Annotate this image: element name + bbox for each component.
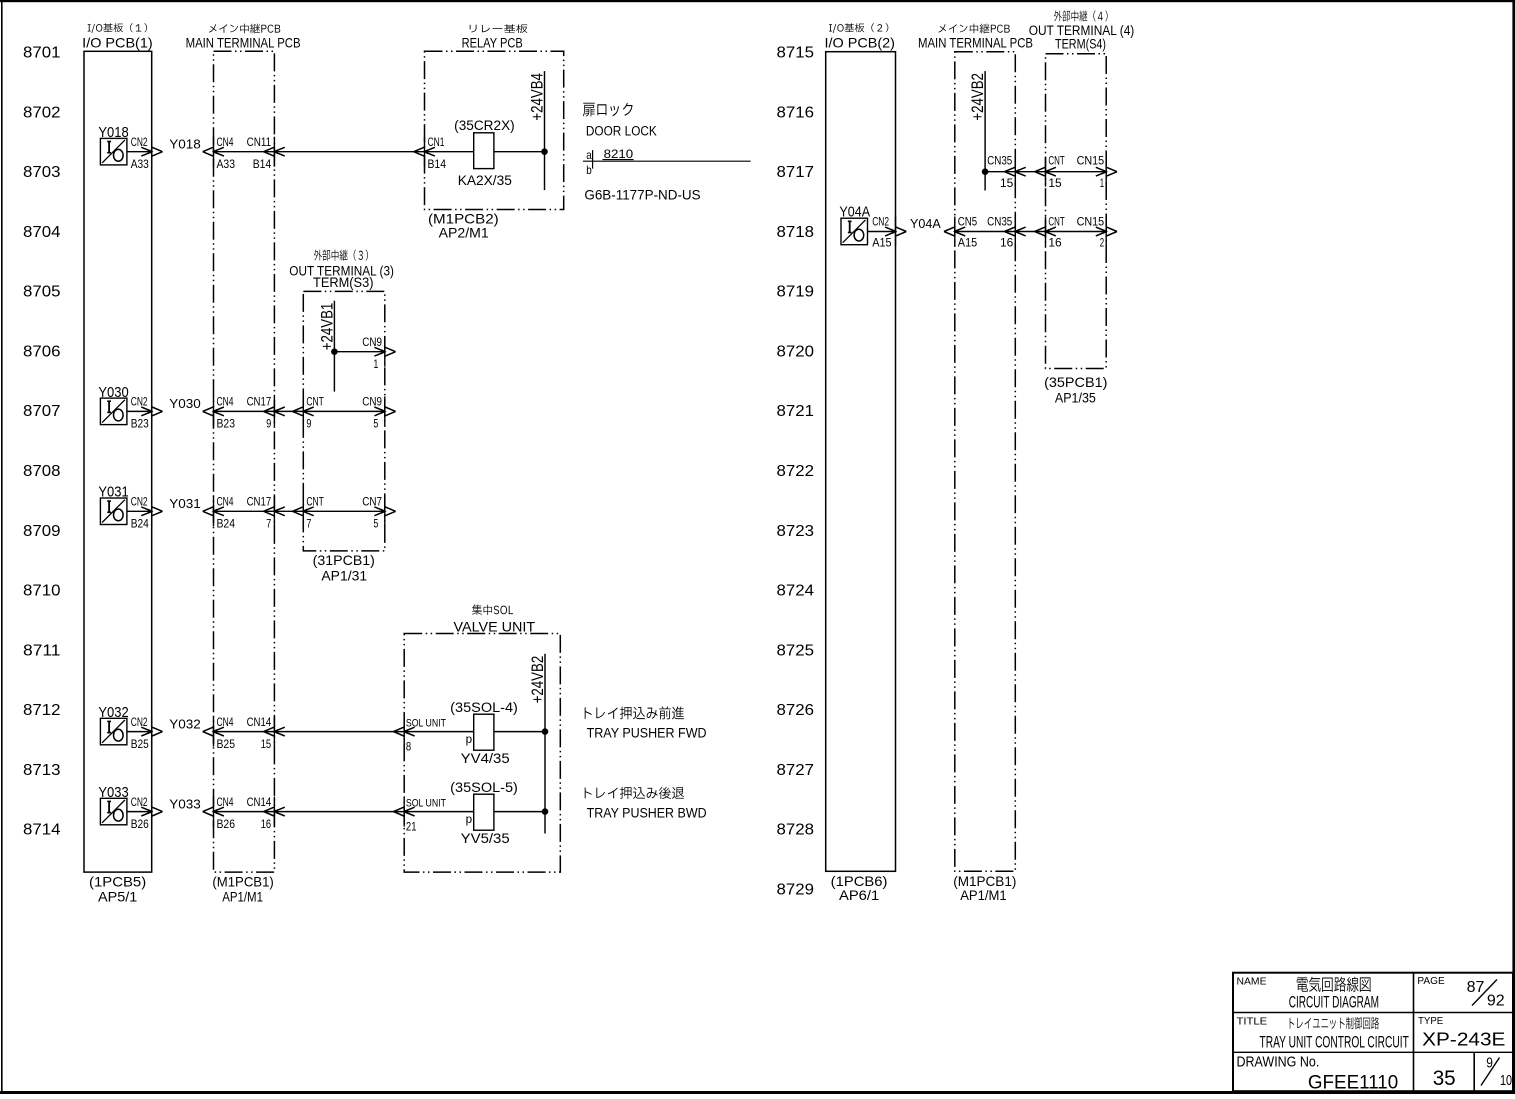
- svg-text:CN2: CN2: [131, 495, 148, 509]
- svg-text:8710: 8710: [23, 583, 61, 600]
- svg-text:TYPE: TYPE: [1418, 1015, 1443, 1027]
- svg-text:(1PCB5): (1PCB5): [89, 874, 146, 890]
- svg-text:8724: 8724: [777, 583, 815, 600]
- power rail +24VB4: [544, 71, 546, 190]
- svg-text:92: 92: [1487, 992, 1505, 1009]
- door lock device label: [583, 103, 657, 139]
- svg-text:AP5/1: AP5/1: [98, 889, 138, 905]
- wire Y030 to I/O PCB(1) edge: [127, 410, 152, 412]
- junction: [542, 728, 549, 735]
- svg-text:PAGE: PAGE: [1417, 975, 1444, 987]
- svg-text:CN2: CN2: [872, 215, 889, 229]
- svg-text:8706: 8706: [23, 344, 61, 361]
- svg-text:5: 5: [373, 517, 378, 531]
- svg-text:VALVE UNIT: VALVE UNIT: [454, 620, 536, 635]
- svg-text:B26: B26: [217, 817, 236, 831]
- svg-text:16: 16: [261, 817, 272, 831]
- connector CN2 pin B25 labels: [131, 715, 149, 751]
- wire number 8210: [603, 147, 634, 161]
- wire CNT to CN15: [1046, 231, 1107, 233]
- svg-text:Y032: Y032: [169, 717, 201, 731]
- svg-text:YV4/35: YV4/35: [461, 750, 510, 766]
- svg-text:7: 7: [306, 517, 311, 531]
- svg-text:2: 2: [1100, 236, 1105, 250]
- svg-text:B25: B25: [131, 737, 149, 751]
- svg-text:CN4: CN4: [217, 795, 234, 809]
- svg-text:Y030: Y030: [169, 397, 201, 411]
- svg-text:8718: 8718: [777, 224, 815, 241]
- solenoid YV5/35 (35SOL-5): [450, 780, 518, 846]
- svg-text:7: 7: [266, 517, 271, 531]
- svg-text:Y04A: Y04A: [910, 217, 941, 231]
- connector crossing CN9 pin 1: [362, 335, 395, 371]
- PCB box OUT TERMINAL (4) TERM(S4): [1029, 10, 1135, 405]
- svg-text:b: b: [586, 163, 592, 177]
- connector crossing at I/O PCB(1) edge: [151, 137, 153, 167]
- svg-text:AP1/M1: AP1/M1: [222, 889, 263, 905]
- svg-text:MAIN TERMINAL PCB: MAIN TERMINAL PCB: [918, 35, 1033, 51]
- title block NAME cell: [1237, 976, 1380, 1012]
- PCB box OUT TERMINAL (3) TERM(S3): [289, 250, 394, 584]
- svg-text:B25: B25: [217, 737, 236, 751]
- connector crossing CN4 pin B23: [203, 395, 236, 431]
- svg-text:1: 1: [1100, 176, 1105, 190]
- svg-text:8729: 8729: [777, 881, 815, 898]
- solenoid YV4/35 (35SOL-4): [450, 700, 518, 766]
- wire solenoid to +24VB2 rail: [494, 731, 545, 733]
- svg-text:8723: 8723: [777, 523, 815, 540]
- wire SOL UNIT to solenoid YV5/35: [404, 811, 474, 813]
- svg-text:8721: 8721: [777, 403, 815, 420]
- junction: [542, 808, 549, 815]
- svg-text:Y031: Y031: [169, 497, 201, 511]
- PCB box RELAY PCB: [425, 24, 564, 240]
- connector crossing CN9 pin 5: [362, 395, 395, 431]
- right margin line numbers 8715-8729: [777, 45, 815, 899]
- svg-text:8716: 8716: [777, 104, 815, 121]
- svg-text:8722: 8722: [777, 463, 815, 480]
- svg-text:TRAY UNIT CONTROL CIRCUIT: TRAY UNIT CONTROL CIRCUIT: [1260, 1034, 1409, 1052]
- svg-text:p: p: [466, 732, 473, 746]
- svg-text:NAME: NAME: [1237, 976, 1267, 988]
- svg-text:8714: 8714: [23, 822, 61, 839]
- svg-text:AP1/35: AP1/35: [1055, 390, 1096, 406]
- wire Y031 to I/O PCB(1) edge: [127, 510, 152, 512]
- power rail +24VB2 (valve unit): [544, 654, 546, 834]
- I/O output module Y018: [98, 124, 128, 165]
- svg-text:CN9: CN9: [362, 395, 382, 409]
- svg-text:15: 15: [1000, 176, 1014, 190]
- I/O output module Y032: [98, 704, 128, 745]
- svg-text:8726: 8726: [777, 702, 815, 719]
- svg-text:9: 9: [266, 417, 271, 431]
- I/O output module Y033: [98, 784, 128, 825]
- wire CNT to CN15: [1046, 171, 1107, 173]
- svg-text:8712: 8712: [23, 702, 61, 719]
- svg-text:8715: 8715: [777, 45, 815, 62]
- connector crossing CN1 pin B14 at RELAY PCB: [414, 135, 447, 171]
- svg-text:8707: 8707: [23, 403, 61, 420]
- svg-text:GFEE1110: GFEE1110: [1308, 1072, 1398, 1094]
- svg-text:TERM(S3): TERM(S3): [313, 275, 374, 290]
- svg-text:CN4: CN4: [217, 495, 234, 509]
- connector crossing CN14 pin 15: [247, 715, 285, 751]
- wire relay coil to +24VB4 rail: [494, 151, 545, 153]
- PCB box VALVE UNIT: [404, 604, 560, 872]
- svg-text:15: 15: [261, 737, 272, 751]
- svg-text:8703: 8703: [23, 164, 61, 181]
- wire CN17 to OUT TERMINAL(3): [274, 510, 303, 512]
- svg-text:1: 1: [373, 357, 378, 371]
- svg-text:CIRCUIT DIAGRAM: CIRCUIT DIAGRAM: [1289, 993, 1379, 1011]
- connector crossing CN17 pin 9: [247, 395, 285, 431]
- wire CN4 to CN17: [214, 410, 275, 412]
- svg-text:XP-243E: XP-243E: [1422, 1029, 1505, 1050]
- connector crossing CN11 pin B14: [247, 135, 285, 171]
- wire CNT to CN9: [303, 410, 385, 412]
- svg-text:TRAY PUSHER FWD: TRAY PUSHER FWD: [587, 725, 707, 740]
- wire Y04A to I/O PCB(2) edge: [868, 231, 896, 233]
- wire CN35 to CNT: [1015, 171, 1045, 173]
- svg-text:OUT TERMINAL (4): OUT TERMINAL (4): [1029, 23, 1135, 38]
- svg-text:CN2: CN2: [131, 135, 148, 149]
- wire Y018 to I/O PCB(1) edge: [127, 151, 152, 153]
- svg-text:AP6/1: AP6/1: [839, 887, 879, 903]
- svg-text:CN15: CN15: [1077, 215, 1105, 229]
- svg-text:+24VB4: +24VB4: [529, 73, 547, 121]
- PCB box MAIN TERMINAL PCB (right): [918, 24, 1033, 903]
- svg-text:CNT: CNT: [306, 395, 324, 409]
- svg-text:+24VB1: +24VB1: [318, 303, 336, 351]
- I/O output module Y030: [98, 384, 128, 425]
- tray pusher fwd label: [585, 706, 707, 740]
- svg-text:CN15: CN15: [1077, 154, 1105, 168]
- left margin line numbers 8701-8714: [23, 45, 61, 839]
- wire CN17 to OUT TERMINAL(3): [274, 410, 303, 412]
- svg-text:a: a: [586, 148, 592, 162]
- svg-text:5: 5: [373, 417, 378, 431]
- svg-text:8728: 8728: [777, 822, 815, 839]
- connector crossing at I/O PCB(1) edge: [151, 496, 153, 526]
- svg-text:8725: 8725: [777, 642, 815, 659]
- svg-text:(35CR2X): (35CR2X): [454, 118, 515, 133]
- connector CN2 pin B24 labels: [131, 495, 149, 531]
- svg-text:B24: B24: [131, 517, 149, 531]
- svg-text:21: 21: [406, 819, 417, 833]
- wire CN5 to CN35: [955, 231, 1016, 233]
- wire CN1 to relay coil: [425, 151, 474, 153]
- svg-text:TRAY PUSHER BWD: TRAY PUSHER BWD: [587, 806, 707, 821]
- svg-text:B24: B24: [217, 517, 236, 531]
- svg-text:DRAWING No.: DRAWING No.: [1237, 1055, 1320, 1071]
- svg-text:AP1/M1: AP1/M1: [960, 887, 1007, 903]
- svg-text:(35SOL-4): (35SOL-4): [450, 700, 518, 715]
- svg-text:15: 15: [1048, 176, 1062, 190]
- wire solenoid to +24VB2 rail: [494, 811, 545, 813]
- connector crossing CN15 pin 2: [1077, 215, 1117, 250]
- svg-text:8704: 8704: [23, 224, 61, 241]
- svg-text:CN1: CN1: [428, 135, 445, 149]
- power rail +24VB2 (right): [984, 71, 986, 190]
- wire CNT to CN7: [303, 510, 385, 512]
- terminal tick: [592, 150, 594, 169]
- connector crossing CN14 pin 16: [247, 795, 285, 831]
- connector crossing SOL UNIT pin 21: [393, 797, 446, 834]
- junction: [541, 148, 548, 155]
- I/O output module Y04A: [839, 204, 870, 245]
- svg-text:87: 87: [1467, 979, 1485, 996]
- wire SOL UNIT to solenoid YV4/35: [404, 731, 474, 733]
- svg-text:RELAY PCB: RELAY PCB: [462, 35, 523, 50]
- wire +24VB2 to CN35: [985, 171, 1015, 173]
- PCB box I/O PCB(1): [82, 23, 153, 904]
- wire Y033 to I/O PCB(1) edge: [127, 811, 152, 813]
- svg-text:CN17: CN17: [247, 395, 272, 409]
- PCB box I/O PCB(2): [825, 23, 896, 903]
- svg-text:B14: B14: [428, 157, 447, 171]
- svg-text:I/O PCB(1): I/O PCB(1): [82, 35, 153, 51]
- svg-text:CN4: CN4: [217, 715, 234, 729]
- connector crossing CNT pin 15: [1035, 154, 1065, 190]
- svg-text:35: 35: [1433, 1067, 1456, 1090]
- svg-text:8713: 8713: [23, 762, 61, 779]
- svg-text:CN7: CN7: [362, 495, 382, 509]
- title block sheet 9/10: [1481, 1056, 1512, 1089]
- connector crossing CN4 pin B25: [203, 715, 236, 751]
- wire Y032 to I/O PCB(1) edge: [127, 731, 152, 733]
- connector crossing SOL UNIT pin 8: [393, 717, 446, 754]
- title block PAGE cell 87/92: [1417, 975, 1504, 1009]
- title block: [1233, 973, 1513, 1091]
- svg-text:(31PCB1): (31PCB1): [313, 552, 375, 568]
- svg-text:(35SOL-5): (35SOL-5): [450, 780, 518, 795]
- svg-text:CN11: CN11: [247, 135, 272, 149]
- svg-text:B23: B23: [217, 417, 236, 431]
- svg-text:B26: B26: [131, 817, 149, 831]
- svg-text:+24VB2: +24VB2: [529, 656, 547, 704]
- svg-text:DOOR LOCK: DOOR LOCK: [586, 123, 657, 138]
- title block TITLE cell: [1237, 1016, 1409, 1052]
- border frame: [0, 0, 1515, 2]
- svg-text:KA2X/35: KA2X/35: [458, 172, 512, 188]
- connector crossing CN17 pin 7: [247, 495, 285, 531]
- svg-text:8717: 8717: [777, 164, 815, 181]
- wire CN4 to CN1: [214, 151, 425, 153]
- svg-text:8720: 8720: [777, 344, 815, 361]
- svg-text:CNT: CNT: [1048, 154, 1065, 168]
- wire +24VB1 to CN9: [334, 351, 384, 353]
- svg-text:B14: B14: [253, 157, 272, 171]
- connector CN2 pin B26 labels: [131, 795, 149, 831]
- svg-text:SOL UNIT: SOL UNIT: [406, 718, 446, 730]
- svg-text:(M1PCB1): (M1PCB1): [212, 874, 273, 890]
- junction: [331, 348, 338, 355]
- PCB box MAIN TERMINAL PCB (left): [186, 24, 301, 905]
- svg-text:CN4: CN4: [217, 395, 234, 409]
- svg-text:G6B-1177P-ND-US: G6B-1177P-ND-US: [584, 187, 700, 203]
- svg-text:CN5: CN5: [958, 215, 978, 229]
- svg-text:TERM(S4): TERM(S4): [1055, 37, 1106, 52]
- svg-text:AP2/M1: AP2/M1: [439, 225, 489, 241]
- svg-text:CN4: CN4: [217, 135, 234, 149]
- svg-text:CN14: CN14: [247, 715, 272, 729]
- wire CN14 to VALVE UNIT: [274, 731, 404, 733]
- wire CN35 to CNT: [1015, 231, 1045, 233]
- svg-text:(35PCB1): (35PCB1): [1044, 374, 1107, 390]
- svg-text:CN2: CN2: [131, 715, 148, 729]
- connector crossing CNT pin 7: [293, 495, 325, 531]
- svg-text:Y018: Y018: [169, 137, 201, 151]
- connector crossing at I/O PCB(1) edge: [151, 797, 153, 827]
- connector crossing CN5 pin A15: [944, 215, 977, 250]
- svg-text:8701: 8701: [23, 45, 61, 62]
- svg-text:CN9: CN9: [362, 335, 382, 349]
- connector crossing CNT pin 16: [1035, 215, 1065, 250]
- svg-text:B23: B23: [131, 417, 149, 431]
- svg-text:CNT: CNT: [306, 495, 324, 509]
- connector CN2 pin A15 labels: [872, 215, 892, 250]
- svg-text:16: 16: [1000, 236, 1014, 250]
- svg-text:8708: 8708: [23, 463, 61, 480]
- title block DRAWING No. cell: [1237, 1055, 1399, 1094]
- wire CN4 to CN14: [214, 811, 275, 813]
- svg-text:A33: A33: [131, 157, 149, 171]
- svg-text:I/O PCB(2): I/O PCB(2): [825, 35, 896, 51]
- svg-text:AP1/31: AP1/31: [321, 568, 367, 584]
- svg-text:CN17: CN17: [247, 495, 272, 509]
- svg-text:8719: 8719: [777, 284, 815, 301]
- svg-text:CN35: CN35: [987, 154, 1012, 168]
- svg-text:SOL UNIT: SOL UNIT: [406, 798, 446, 810]
- connector crossing at I/O PCB(1) edge: [151, 396, 153, 426]
- svg-text:8: 8: [406, 739, 412, 753]
- wire CN4 to CN14: [214, 731, 275, 733]
- svg-text:8711: 8711: [23, 642, 61, 659]
- connector crossing CNT pin 9: [293, 395, 325, 431]
- svg-text:A15: A15: [958, 236, 978, 250]
- I/O output module Y031: [98, 484, 128, 525]
- svg-text:A15: A15: [872, 236, 892, 250]
- title block TYPE cell XP-243E: [1418, 1015, 1505, 1050]
- svg-text:+24VB2: +24VB2: [969, 73, 987, 121]
- connector crossing CN4 pin B24: [203, 495, 236, 531]
- connector CN2 pin A33 labels: [131, 135, 149, 171]
- svg-text:8709: 8709: [23, 523, 61, 540]
- svg-text:10: 10: [1500, 1073, 1512, 1089]
- svg-text:8705: 8705: [23, 284, 61, 301]
- svg-text:8702: 8702: [23, 104, 61, 121]
- svg-text:A33: A33: [217, 157, 236, 171]
- wire CN14 to VALVE UNIT: [274, 811, 404, 813]
- tray pusher bwd label: [585, 787, 707, 821]
- connector crossing at I/O PCB(1) edge: [151, 717, 153, 747]
- connector crossing CN4 pin A33: [203, 135, 236, 171]
- svg-text:9: 9: [306, 417, 311, 431]
- svg-text:p: p: [466, 812, 473, 826]
- connector crossing CN7 pin 5: [362, 495, 395, 531]
- svg-text:16: 16: [1048, 236, 1062, 250]
- door lock wire: [583, 160, 751, 162]
- connector CN2 pin B23 labels: [131, 395, 149, 431]
- junction: [982, 168, 989, 175]
- svg-text:CN35: CN35: [987, 215, 1012, 229]
- connector crossing CN35 pin 16: [987, 215, 1026, 250]
- svg-text:Y033: Y033: [169, 797, 201, 811]
- power rail +24VB1: [333, 301, 335, 392]
- connector crossing at I/O PCB(2) edge: [895, 217, 897, 247]
- wire CN4 to CN17: [214, 510, 275, 512]
- svg-text:TITLE: TITLE: [1237, 1016, 1268, 1028]
- svg-text:YV5/35: YV5/35: [461, 830, 510, 846]
- svg-text:8727: 8727: [777, 762, 815, 779]
- relay coil KA2X/35 (35CR2X): [454, 118, 515, 188]
- svg-text:MAIN TERMINAL PCB: MAIN TERMINAL PCB: [186, 35, 301, 51]
- svg-text:CN2: CN2: [131, 395, 148, 409]
- connector crossing CN4 pin B26: [203, 795, 236, 831]
- svg-text:CN14: CN14: [247, 795, 272, 809]
- connector crossing CN15 pin 1: [1077, 154, 1117, 190]
- svg-text:CNT: CNT: [1048, 215, 1065, 229]
- svg-text:CN2: CN2: [131, 795, 148, 809]
- connector crossing CN35 pin 15: [987, 154, 1026, 190]
